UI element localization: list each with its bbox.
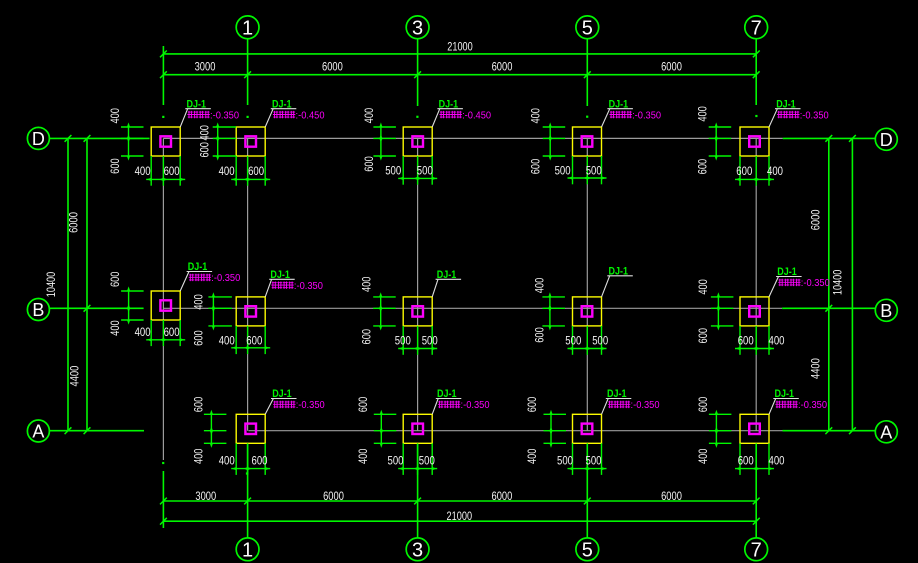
axis bubble 5 bottom bbox=[576, 538, 599, 561]
point markers bbox=[162, 116, 164, 118]
svg-text:600: 600 bbox=[246, 335, 262, 348]
svg-text:DJ-1: DJ-1 bbox=[437, 388, 457, 400]
svg-text::-0.350: :-0.350 bbox=[210, 110, 239, 121]
svg-text:DJ-1: DJ-1 bbox=[609, 265, 629, 277]
grid line col 1 bbox=[247, 138, 249, 430]
axis bubble 1 top bbox=[236, 16, 259, 39]
column B-3 bbox=[412, 306, 423, 316]
svg-text:500: 500 bbox=[565, 334, 581, 347]
label DJ-1 D-3 bbox=[432, 109, 440, 127]
vertical dim chain B-5 bbox=[549, 297, 551, 326]
foundation pad DJ-1 D-1 bbox=[236, 127, 265, 156]
svg-text:400: 400 bbox=[135, 326, 151, 339]
foundation pad DJ-1 A-7 bbox=[740, 414, 769, 443]
horizontal dim chain B-1 bbox=[231, 347, 270, 349]
vertical dim chain A-3 bbox=[380, 414, 382, 443]
svg-text:400: 400 bbox=[199, 125, 212, 141]
svg-text:400: 400 bbox=[769, 335, 785, 348]
svg-text:500: 500 bbox=[592, 334, 608, 347]
svg-text:400: 400 bbox=[526, 449, 539, 465]
svg-text:6000: 6000 bbox=[492, 490, 513, 503]
vertical dim chain D-5 bbox=[549, 127, 551, 156]
axis bubble 7 bottom bbox=[745, 538, 768, 561]
svg-text::-0.350: :-0.350 bbox=[211, 273, 240, 284]
elevation label A-1 bbox=[273, 401, 295, 408]
column A-3 bbox=[412, 424, 423, 434]
grid line col 3 bbox=[417, 138, 419, 430]
svg-text:400: 400 bbox=[363, 108, 376, 124]
label DJ-1 B-5 bbox=[602, 276, 610, 297]
label DJ-1 D-7 bbox=[769, 109, 777, 127]
svg-text:400: 400 bbox=[769, 455, 785, 468]
svg-text:4400: 4400 bbox=[69, 366, 82, 387]
foundation pad DJ-1 D-7 bbox=[740, 127, 769, 156]
right dimension line 6000/4400 bbox=[828, 138, 830, 430]
svg-text:500: 500 bbox=[586, 164, 602, 177]
svg-text:600: 600 bbox=[109, 158, 122, 174]
column D-5 bbox=[582, 136, 593, 146]
foundation pad DJ-1 B-5 bbox=[573, 297, 602, 326]
axis bubble B right bbox=[875, 299, 897, 321]
svg-text:600: 600 bbox=[697, 397, 710, 413]
axis 1 bottom stub bbox=[247, 444, 249, 538]
svg-text:21000: 21000 bbox=[447, 510, 473, 523]
foundation pad DJ-1 B-3 bbox=[403, 297, 432, 326]
vertical dim chain A-5 bbox=[550, 414, 552, 443]
svg-text:3: 3 bbox=[412, 540, 423, 562]
label DJ-1 A-5 bbox=[602, 399, 609, 415]
axis bubble 1 bottom bbox=[236, 538, 259, 561]
svg-text:500: 500 bbox=[555, 164, 571, 177]
axis L top extension bbox=[162, 46, 164, 105]
svg-text:3: 3 bbox=[412, 18, 423, 40]
elevation label D-3 bbox=[440, 111, 462, 118]
column D-L bbox=[160, 136, 171, 146]
svg-text:500: 500 bbox=[419, 455, 435, 468]
label DJ-1 A-1 bbox=[265, 399, 273, 415]
svg-text:DJ-1: DJ-1 bbox=[609, 98, 629, 110]
svg-text:DJ-1: DJ-1 bbox=[437, 269, 457, 281]
svg-text:400: 400 bbox=[219, 455, 235, 468]
foundation pad DJ-1 D-5 bbox=[573, 127, 602, 156]
grid line col 5 bbox=[586, 138, 588, 430]
svg-text:400: 400 bbox=[193, 449, 206, 465]
vertical dim chain A-7 bbox=[715, 414, 717, 443]
vertical dim chain D-1 bbox=[217, 127, 219, 156]
elevation label D-5 bbox=[610, 111, 632, 118]
label DJ-1 D-5 bbox=[602, 109, 610, 127]
vertical dim chain D-3 bbox=[380, 127, 382, 156]
horizontal dim chain B-7 bbox=[735, 348, 774, 350]
right dimension line 10400 bbox=[851, 138, 853, 430]
horizontal dim chain D-1 bbox=[231, 178, 270, 180]
grid line row B bbox=[163, 307, 782, 309]
left dimension line 6000/4400 bbox=[86, 138, 88, 430]
svg-text:400: 400 bbox=[219, 335, 235, 348]
svg-text:600: 600 bbox=[738, 335, 754, 348]
elevation label B-1 bbox=[271, 282, 293, 289]
svg-text:6000: 6000 bbox=[68, 212, 81, 233]
svg-text:21000: 21000 bbox=[447, 40, 473, 53]
horizontal dim chain B-5 bbox=[568, 348, 607, 350]
svg-text:5: 5 bbox=[582, 18, 593, 40]
axis bubble A right bbox=[875, 421, 897, 443]
svg-text:B: B bbox=[880, 301, 892, 321]
horizontal dim chain D-L bbox=[146, 178, 185, 180]
axis bubble D left bbox=[27, 127, 49, 149]
svg-text:D: D bbox=[32, 129, 45, 149]
label DJ-1 B-L bbox=[180, 272, 189, 292]
elevation label A-5 bbox=[608, 401, 630, 408]
grid line col L bbox=[162, 138, 164, 460]
svg-text:400: 400 bbox=[697, 449, 710, 465]
svg-text:DJ-1: DJ-1 bbox=[775, 388, 795, 400]
svg-text:600: 600 bbox=[164, 165, 180, 178]
svg-text:A: A bbox=[32, 422, 44, 442]
svg-text::-0.350: :-0.350 bbox=[801, 278, 830, 289]
grid line col 7 bbox=[755, 138, 757, 430]
label DJ-1 A-3 bbox=[432, 399, 438, 415]
svg-text:500: 500 bbox=[422, 334, 438, 347]
foundation pad DJ-1 A-1 bbox=[236, 414, 265, 443]
svg-text:400: 400 bbox=[135, 165, 151, 178]
axis D left stub bbox=[49, 137, 150, 139]
svg-text:500: 500 bbox=[385, 164, 401, 177]
svg-text:600: 600 bbox=[736, 165, 752, 178]
elevation label D-L bbox=[187, 111, 209, 118]
axis bubble B left bbox=[27, 299, 49, 321]
label DJ-1 B-1 bbox=[265, 279, 271, 297]
svg-text:400: 400 bbox=[534, 278, 547, 294]
bottom dimension line 21000 bbox=[163, 520, 756, 522]
horizontal dim chain A-1 bbox=[231, 468, 270, 470]
svg-text:600: 600 bbox=[526, 397, 539, 413]
elevation label D-7 bbox=[777, 111, 799, 118]
axis A left stub bbox=[49, 430, 144, 432]
svg-text:600: 600 bbox=[252, 455, 268, 468]
svg-text:600: 600 bbox=[696, 159, 709, 175]
axis bubble 7 top bbox=[745, 16, 768, 39]
svg-text:600: 600 bbox=[109, 272, 122, 288]
foundation pad DJ-1 A-3 bbox=[403, 414, 432, 443]
svg-text:10400: 10400 bbox=[45, 272, 58, 298]
svg-text:1: 1 bbox=[242, 18, 253, 40]
svg-text:DJ-1: DJ-1 bbox=[272, 388, 292, 400]
svg-text:DJ-1: DJ-1 bbox=[439, 98, 459, 110]
horizontal dim chain D-5 bbox=[568, 177, 607, 179]
svg-text:DJ-1: DJ-1 bbox=[776, 98, 796, 110]
horizontal dim chain D-3 bbox=[398, 177, 437, 179]
svg-text::-0.350: :-0.350 bbox=[296, 400, 325, 411]
svg-text:600: 600 bbox=[360, 329, 373, 345]
svg-text::-0.350: :-0.350 bbox=[632, 110, 661, 121]
svg-text:6000: 6000 bbox=[661, 490, 682, 503]
svg-text::-0.450: :-0.450 bbox=[462, 110, 491, 121]
vertical dim chain B-1 bbox=[212, 297, 214, 326]
svg-text:DJ-1: DJ-1 bbox=[270, 269, 290, 281]
svg-text:600: 600 bbox=[199, 142, 212, 158]
svg-text::-0.350: :-0.350 bbox=[294, 281, 323, 292]
svg-text:4400: 4400 bbox=[809, 358, 822, 379]
svg-text::-0.450: :-0.450 bbox=[296, 110, 325, 121]
elevation label B-7 bbox=[778, 279, 800, 286]
vertical dim chain A-1 bbox=[210, 414, 212, 443]
horizontal dim chain B-L bbox=[146, 339, 185, 341]
svg-text:400: 400 bbox=[109, 108, 122, 124]
svg-text::-0.350: :-0.350 bbox=[800, 110, 829, 121]
svg-text:400: 400 bbox=[109, 320, 122, 336]
foundation pad DJ-1 B-1 bbox=[236, 297, 265, 326]
column A-7 bbox=[749, 424, 760, 434]
svg-text:600: 600 bbox=[697, 328, 710, 344]
svg-text:D: D bbox=[880, 130, 893, 150]
foundation pad DJ-1 A-5 bbox=[573, 414, 602, 443]
axis 1 top stub bbox=[247, 39, 249, 105]
label DJ-1 A-7 bbox=[769, 399, 776, 415]
axis 7 bottom stub bbox=[755, 444, 757, 538]
label DJ-1 D-1 bbox=[265, 109, 273, 127]
foundation pad DJ-1 B-L bbox=[151, 291, 180, 320]
vertical dim chain B-3 bbox=[380, 297, 382, 326]
vertical dim chain D-L bbox=[128, 127, 130, 156]
axis 5 top stub bbox=[586, 39, 588, 106]
svg-text:500: 500 bbox=[557, 455, 573, 468]
svg-text:600: 600 bbox=[363, 156, 376, 172]
svg-text:6000: 6000 bbox=[322, 61, 343, 74]
foundation pad DJ-1 B-7 bbox=[740, 297, 769, 326]
column A-5 bbox=[582, 424, 593, 434]
vertical dim chain D-7 bbox=[715, 127, 717, 156]
axis bubble 3 bottom bbox=[406, 538, 429, 561]
svg-text:1: 1 bbox=[242, 540, 253, 562]
axis bubble 3 top bbox=[406, 16, 429, 39]
axis bubble 5 top bbox=[576, 16, 599, 39]
column B-7 bbox=[749, 306, 760, 316]
axis bubble A left bbox=[27, 420, 49, 442]
label DJ-1 D-L bbox=[180, 109, 188, 127]
horizontal dim chain A-5 bbox=[568, 468, 607, 470]
elevation label D-1 bbox=[273, 111, 295, 118]
svg-text:600: 600 bbox=[534, 327, 547, 343]
svg-text:400: 400 bbox=[219, 165, 235, 178]
svg-text:600: 600 bbox=[738, 455, 754, 468]
svg-text:600: 600 bbox=[357, 397, 370, 413]
horizontal dim chain A-7 bbox=[735, 468, 774, 470]
column B-L bbox=[160, 300, 171, 310]
horizontal dim chain B-3 bbox=[398, 348, 437, 350]
svg-text:A: A bbox=[880, 422, 892, 442]
svg-text:3000: 3000 bbox=[195, 490, 216, 503]
svg-text:6000: 6000 bbox=[492, 61, 513, 74]
axis bubble D right bbox=[875, 128, 897, 150]
svg-text:400: 400 bbox=[360, 277, 373, 293]
vertical dim chain B-7 bbox=[717, 297, 719, 326]
svg-text:500: 500 bbox=[586, 455, 602, 468]
svg-text:6000: 6000 bbox=[323, 490, 344, 503]
axis B right stub bbox=[782, 307, 876, 309]
label DJ-1 B-7 bbox=[769, 277, 779, 297]
svg-text:400: 400 bbox=[767, 165, 783, 178]
svg-text::-0.350: :-0.350 bbox=[631, 400, 660, 411]
svg-text:600: 600 bbox=[248, 165, 264, 178]
axis 3 top stub bbox=[417, 39, 419, 106]
svg-text::-0.350: :-0.350 bbox=[461, 400, 490, 411]
svg-text:7: 7 bbox=[751, 540, 762, 562]
column D-7 bbox=[749, 136, 760, 146]
horizontal dim chain D-7 bbox=[735, 178, 774, 180]
column D-3 bbox=[412, 136, 423, 146]
top dimension line 21000 bbox=[163, 53, 756, 55]
svg-text:DJ-1: DJ-1 bbox=[188, 261, 208, 273]
left dimension line 10400 bbox=[67, 138, 69, 430]
svg-text:400: 400 bbox=[357, 449, 370, 465]
axis 7 top stub bbox=[755, 39, 757, 105]
column B-5 bbox=[582, 306, 593, 316]
svg-text:500: 500 bbox=[417, 164, 433, 177]
grid line row A bbox=[249, 430, 783, 432]
elevation label A-3 bbox=[438, 401, 460, 408]
svg-text:600: 600 bbox=[164, 326, 180, 339]
grid line row D bbox=[163, 137, 782, 139]
axis B left stub bbox=[49, 307, 144, 309]
foundation pad DJ-1 D-3 bbox=[403, 127, 432, 156]
svg-text:DJ-1: DJ-1 bbox=[777, 266, 797, 278]
svg-text:400: 400 bbox=[697, 279, 710, 295]
axis L bottom extension bbox=[162, 471, 164, 528]
elevation label A-7 bbox=[775, 401, 797, 408]
column B-1 bbox=[245, 306, 256, 316]
svg-text:DJ-1: DJ-1 bbox=[607, 388, 627, 400]
svg-text:400: 400 bbox=[193, 294, 206, 310]
svg-text:600: 600 bbox=[193, 330, 206, 346]
svg-text:3000: 3000 bbox=[195, 61, 216, 74]
elevation label B-L bbox=[189, 274, 211, 281]
svg-text:DJ-1: DJ-1 bbox=[272, 98, 292, 110]
svg-text:500: 500 bbox=[395, 334, 411, 347]
foundation pad DJ-1 D-L bbox=[151, 127, 180, 156]
svg-text:6000: 6000 bbox=[809, 210, 822, 231]
label DJ-1 B-3 bbox=[432, 279, 438, 297]
svg-text:500: 500 bbox=[388, 455, 404, 468]
top dimension line segments 3000/6000/6000/6000 bbox=[163, 74, 756, 76]
svg-text:DJ-1: DJ-1 bbox=[187, 98, 207, 110]
svg-text:5: 5 bbox=[582, 540, 593, 562]
svg-text:6000: 6000 bbox=[661, 61, 682, 74]
vertical dim chain B-L bbox=[128, 291, 130, 320]
svg-text:400: 400 bbox=[696, 106, 709, 122]
svg-text:10400: 10400 bbox=[831, 270, 844, 296]
horizontal dim chain A-3 bbox=[398, 468, 437, 470]
svg-text:600: 600 bbox=[193, 397, 206, 413]
axis D right stub bbox=[783, 137, 876, 139]
svg-text::-0.350: :-0.350 bbox=[798, 400, 827, 411]
svg-text:7: 7 bbox=[751, 18, 762, 40]
svg-text:B: B bbox=[32, 300, 44, 320]
bottom dimension line segments 3000/6000/6000/6000 bbox=[163, 500, 756, 502]
axis A right stub bbox=[783, 430, 876, 432]
column A-1 bbox=[245, 424, 256, 434]
axis 5 bottom stub bbox=[586, 444, 588, 538]
svg-text:400: 400 bbox=[530, 108, 543, 124]
axis 3 bottom stub bbox=[417, 444, 419, 538]
svg-text:600: 600 bbox=[530, 159, 543, 175]
column D-1 bbox=[245, 136, 256, 146]
